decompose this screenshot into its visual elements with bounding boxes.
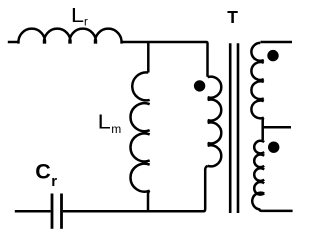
svg-text:C: C bbox=[35, 160, 51, 184]
svg-text:r: r bbox=[84, 17, 88, 29]
svg-text:m: m bbox=[111, 122, 121, 136]
svg-text:L: L bbox=[71, 4, 84, 27]
svg-text:L: L bbox=[98, 110, 111, 133]
svg-text:r: r bbox=[51, 173, 57, 190]
svg-text:T: T bbox=[227, 7, 238, 27]
